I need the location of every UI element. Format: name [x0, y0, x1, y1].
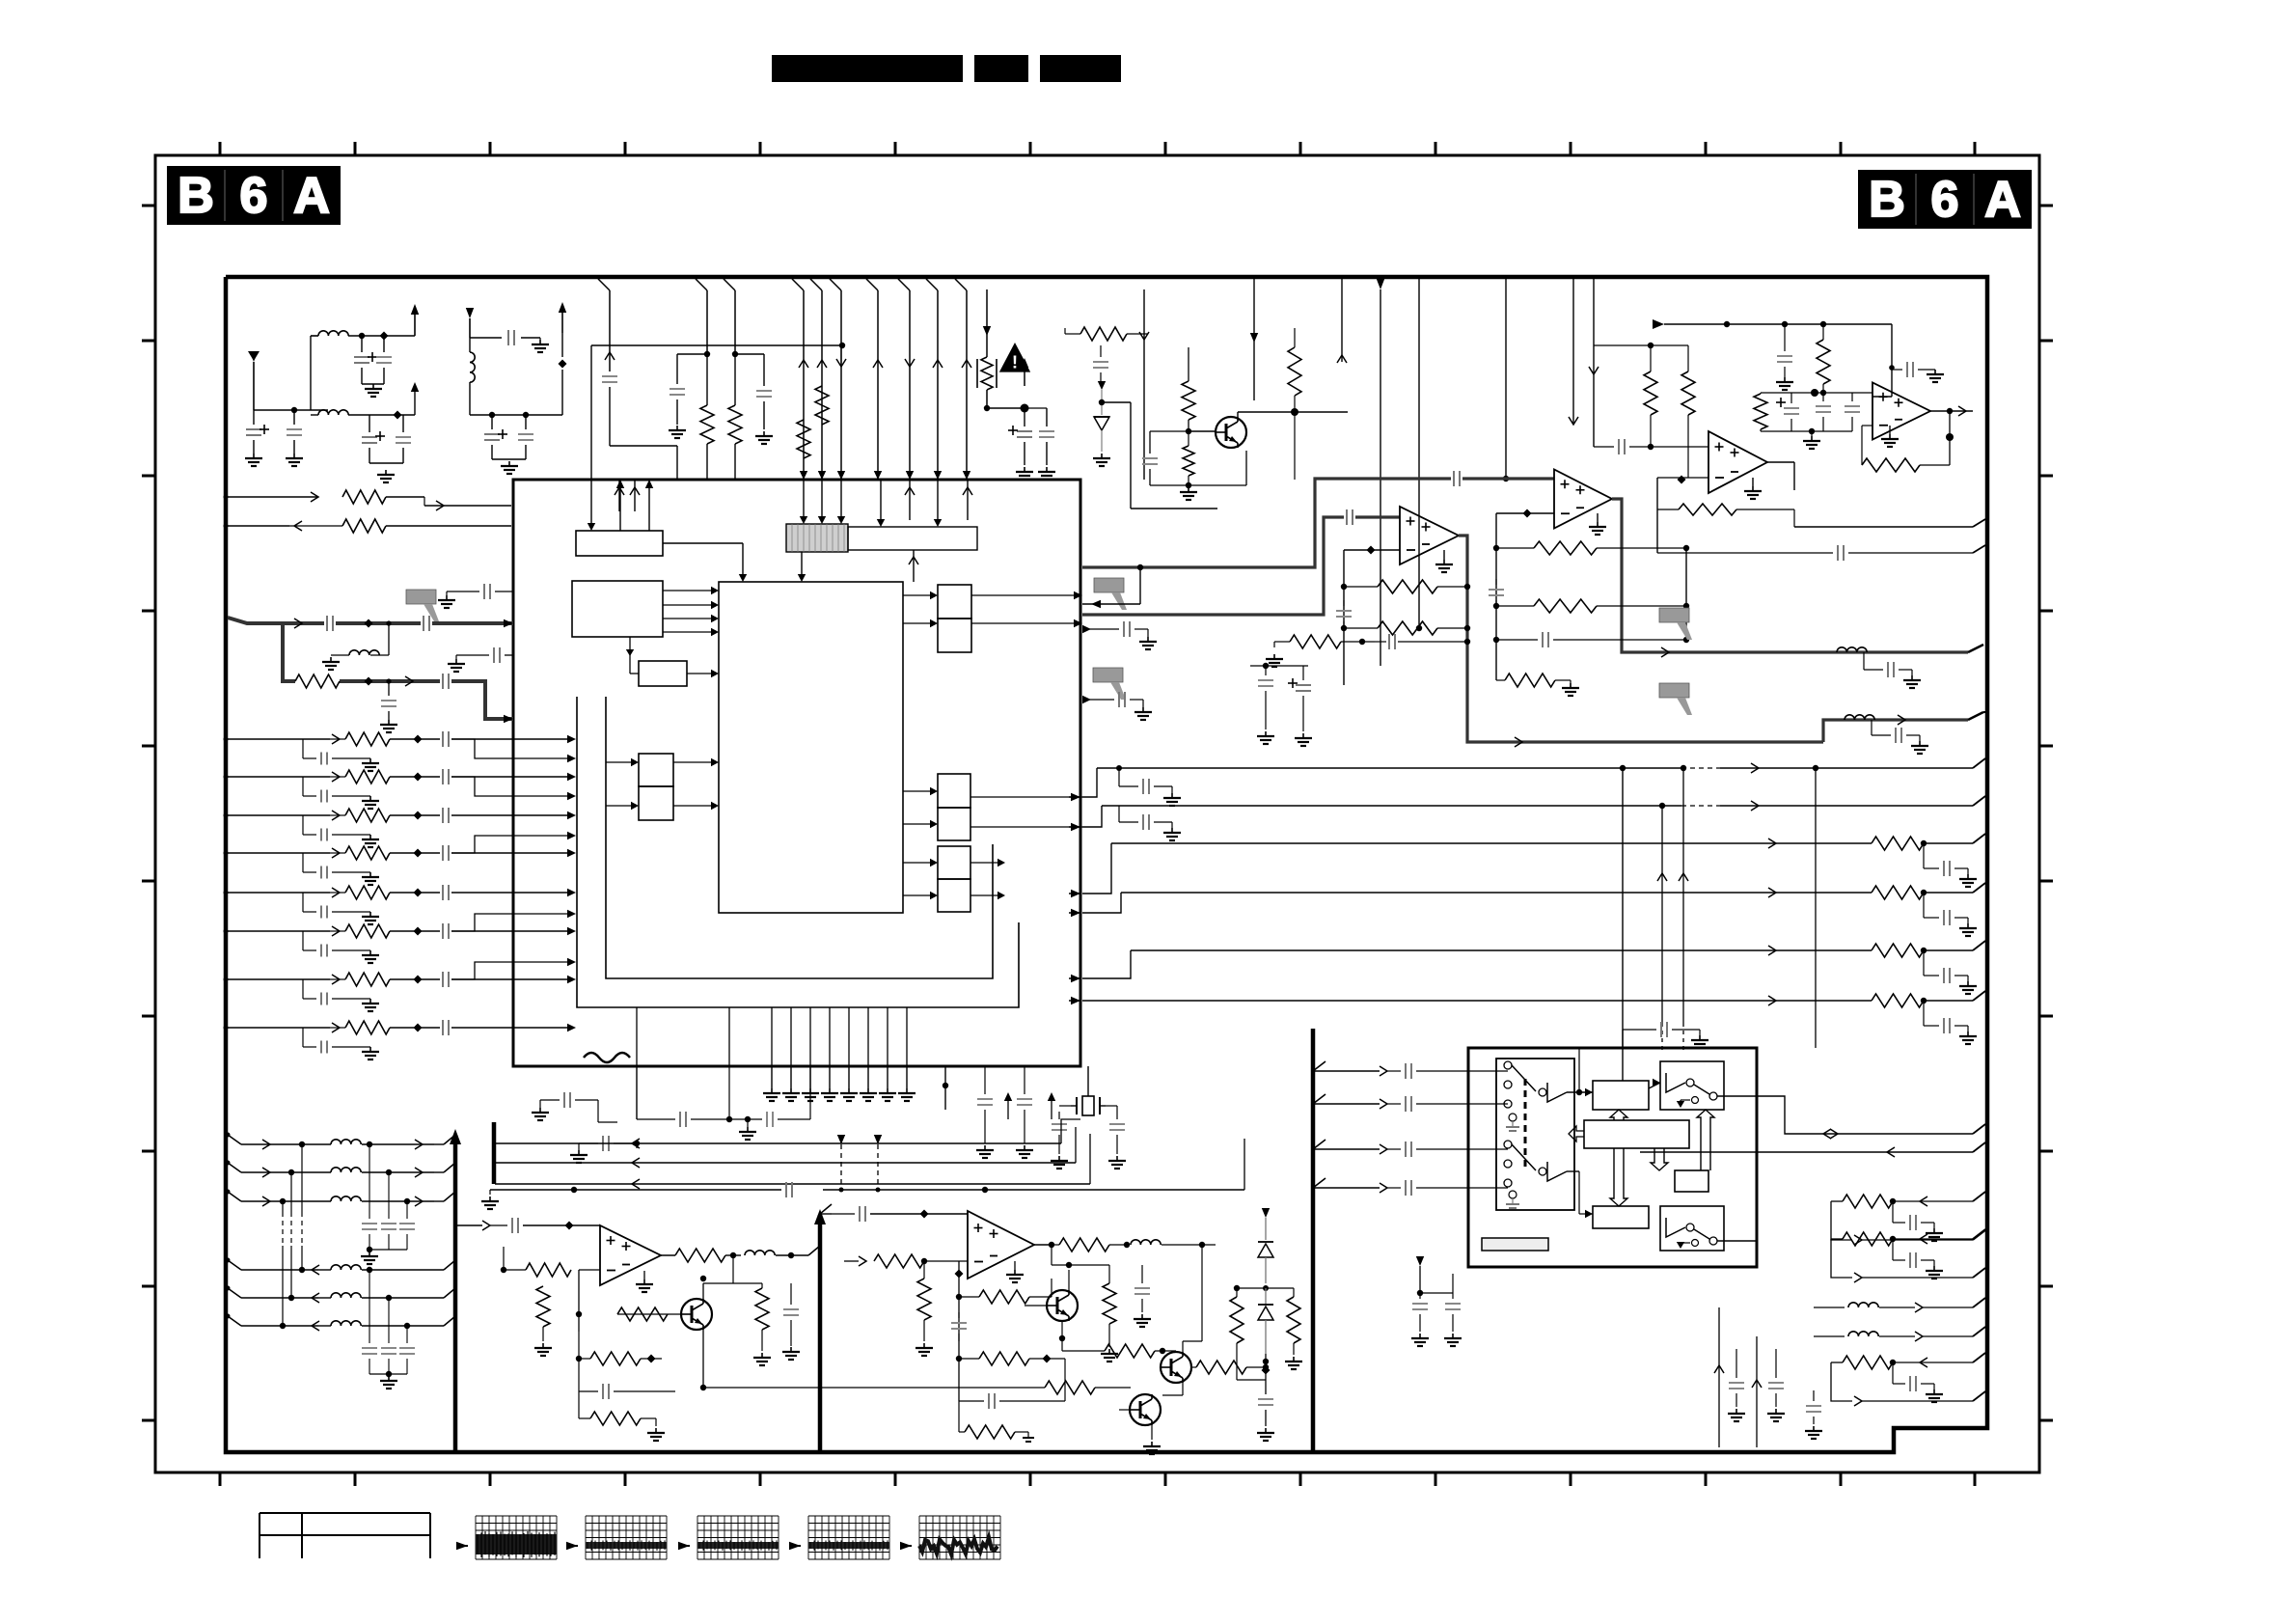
transistor Q4 — [1161, 1352, 1191, 1383]
inductor L2 — [318, 410, 348, 415]
node — [394, 411, 402, 420]
return line 2 — [495, 1162, 1076, 1164]
switch arrow — [1680, 1100, 1681, 1106]
IC in arrow — [1082, 603, 1140, 605]
cap to ground stub — [1863, 652, 1865, 670]
op-amp U7 — [968, 1211, 1034, 1279]
bus elbows — [1082, 768, 1097, 797]
dashed supply 2 — [874, 1135, 882, 1144]
res row 1412 — [1831, 1362, 1843, 1363]
inductor L6 — [745, 1251, 775, 1255]
oscillogram thumbnail 5 — [918, 1516, 920, 1559]
resistor R12 — [1496, 547, 1534, 549]
IC U1 block: hatched register — [786, 524, 848, 552]
thick branch (highlight) — [283, 623, 295, 681]
resistor R3 — [797, 420, 810, 458]
gray ground 1 — [1509, 1114, 1517, 1121]
node — [1234, 1285, 1240, 1291]
lower res rows — [578, 1332, 580, 1359]
IC U1 brace mark — [584, 1053, 630, 1062]
diode D1 — [1098, 381, 1106, 390]
IC internal: bottom verticals — [771, 1007, 773, 1066]
bus line y=985 — [1131, 949, 1640, 951]
IC internal: sub-block wires — [629, 637, 631, 674]
capacitor C42 gnd — [1141, 1265, 1143, 1283]
cap top wire — [490, 1189, 781, 1191]
switch block inputs — [1313, 1070, 1380, 1072]
bus line y=925 — [1121, 892, 1640, 894]
dashed supply 1 — [837, 1135, 845, 1144]
thick signal path A — [1082, 479, 1451, 567]
cap trio 1 — [369, 1144, 370, 1219]
wire topmid-to-box — [1649, 1083, 1660, 1088]
wire — [840, 345, 842, 367]
wire: top link bus — [591, 344, 842, 346]
bus stub — [492, 1122, 497, 1184]
cap row — [578, 1359, 580, 1391]
border tick marks — [219, 142, 222, 155]
supply arrow up — [1051, 1100, 1052, 1119]
ground — [362, 383, 384, 385]
transistor Q5 — [1130, 1394, 1161, 1425]
crystal X1 — [1087, 1066, 1089, 1096]
cap+gnd above — [1622, 1030, 1624, 1048]
safety resistor R5 — [986, 289, 988, 357]
node — [1263, 1359, 1269, 1364]
capacitor C7 — [507, 330, 509, 345]
wire buffer1-to-topmid — [1567, 1091, 1593, 1093]
resistor R19 — [295, 674, 340, 688]
capacitor C3+ — [253, 410, 255, 425]
gray ground 2 — [1509, 1191, 1517, 1198]
IC bottom ground stubs — [771, 1066, 773, 1088]
bus line y=835 — [1102, 805, 1640, 807]
input row 8 (resistor R27, caps) — [226, 1027, 330, 1029]
up/down arrows on drops — [799, 360, 808, 368]
resistor R36 — [959, 1296, 979, 1298]
ground — [747, 1119, 749, 1127]
wire buffer2-out — [1567, 1170, 1579, 1172]
node — [365, 619, 373, 628]
IC internal: register to core — [801, 552, 803, 575]
capacitor C45 gnd — [1452, 1293, 1454, 1299]
contact circles — [1504, 1061, 1512, 1069]
block: bottom mid — [1593, 1206, 1649, 1228]
U6 minus feed — [579, 1269, 600, 1271]
inductor L1 — [318, 331, 348, 336]
wire: Q1 collector — [1237, 412, 1239, 417]
vertical drop — [1572, 279, 1574, 425]
capacitor C30b — [1594, 446, 1614, 448]
supply arrow up — [561, 311, 563, 333]
lower-left row y=1215 — [228, 1163, 241, 1172]
block: top mid — [1593, 1081, 1649, 1110]
capacitor C28 — [1845, 405, 1860, 407]
svg-text:B: B — [1869, 172, 1905, 228]
cluster bottom wire — [1760, 429, 1762, 431]
wire branch — [451, 777, 569, 796]
IC up-arrow outputs — [619, 487, 621, 531]
IC U1 outline — [513, 480, 1080, 1066]
oscillogram thumbnail 4 — [807, 1516, 809, 1559]
ground — [1811, 431, 1813, 436]
resistor R10 — [1344, 627, 1378, 629]
coil L3 — [469, 338, 471, 352]
IC U1 internal bus (outer) — [577, 697, 1019, 1007]
thick input row 1 (highlight) — [228, 618, 324, 623]
IC U1 block: register extension — [848, 527, 977, 550]
bus line y=796 — [1097, 767, 1640, 769]
res gnd row — [578, 1391, 580, 1418]
ground — [1597, 513, 1599, 522]
open arrow down — [1651, 1148, 1668, 1170]
capacitor C41 — [959, 1400, 984, 1402]
supply arrow — [1262, 1208, 1270, 1218]
thick path from U3 out — [1612, 499, 1968, 652]
capacitor C14 — [1046, 408, 1048, 426]
capacitor C17 — [1346, 509, 1348, 525]
cap to ground — [1736, 1349, 1737, 1378]
capacitor C10 drop — [598, 279, 610, 290]
diode D3 — [1265, 1288, 1267, 1305]
op-amp U2 — [1400, 507, 1459, 564]
U7 output — [1034, 1244, 1052, 1246]
cap stub into IC y613 — [446, 595, 448, 600]
wire — [470, 337, 502, 339]
input wire — [820, 1213, 832, 1215]
capacitor C30 — [326, 616, 328, 631]
wire — [1059, 1105, 1071, 1107]
input row 1 (resistor R20, caps) — [226, 738, 330, 740]
wire — [1139, 567, 1141, 604]
resistor R32 — [675, 1249, 725, 1262]
edge connector — [1968, 712, 1983, 720]
buffer tri 3 — [1666, 1073, 1685, 1092]
ground — [1443, 550, 1445, 560]
wire — [1237, 1379, 1266, 1381]
svg-text:A: A — [293, 168, 330, 224]
supply arrow (group B) — [466, 308, 474, 318]
wire U4 out — [1767, 461, 1794, 463]
node — [1678, 476, 1686, 484]
supply arrow up — [1024, 367, 1025, 386]
Q2 collector — [702, 1283, 704, 1299]
svg-text:6: 6 — [1931, 172, 1959, 228]
capacitor C44 gnd — [1419, 1293, 1421, 1299]
capacitor C23 — [1496, 639, 1538, 641]
vertical drop — [1253, 279, 1255, 400]
capacitor C5+ — [369, 415, 370, 432]
bias resistor pair — [1594, 344, 1688, 346]
input row y515 — [226, 496, 318, 498]
svg-text:B: B — [178, 168, 214, 224]
lower-left row y=1374 — [228, 1316, 241, 1326]
return line 3 — [495, 1183, 1090, 1185]
wire: Q1 base — [1189, 430, 1216, 432]
cap mid — [790, 1283, 792, 1305]
wire — [1344, 549, 1400, 551]
pol cap C20 and C21 to ground — [1265, 666, 1267, 675]
vertical from bus — [1815, 768, 1817, 1048]
signal flag 1 — [1094, 578, 1124, 592]
switch sub-box — [1496, 1059, 1574, 1210]
lower-left row y=1186 — [228, 1135, 241, 1144]
wire — [470, 414, 562, 416]
IC U1 block: left pair A — [639, 754, 673, 786]
resistor R30 — [504, 1269, 526, 1271]
block: small right — [1675, 1170, 1708, 1192]
grid label B6A (top-right) — [1858, 170, 2032, 229]
cap to ground — [1813, 1390, 1815, 1401]
resistor R40 gnd — [1103, 1283, 1116, 1324]
capacitor C18 — [1343, 600, 1345, 606]
verticals to switch block — [1661, 806, 1663, 1023]
Q3 emitter — [1061, 1321, 1063, 1334]
transistor Q3 — [1047, 1290, 1078, 1321]
resistor R31 gnd — [536, 1286, 550, 1327]
IC U1 block: top-left control — [576, 531, 663, 556]
resistor R44 gnd — [1287, 1297, 1300, 1343]
section divider bus 1 — [453, 1135, 458, 1452]
op-amp U3 — [1554, 470, 1612, 529]
IC internal: core to out pairs — [903, 594, 931, 596]
IC internal: ctrl to core — [663, 542, 743, 544]
outer border frame — [155, 155, 2039, 1472]
node — [984, 405, 990, 411]
wire U5 out — [1930, 410, 1973, 412]
inductor L5 — [1837, 647, 1867, 652]
wire out right low — [1717, 1240, 1757, 1242]
resistor R6 — [1064, 328, 1066, 334]
IC U1 block: out pair low — [938, 846, 970, 879]
capacitor C34 — [984, 1066, 986, 1094]
black redaction bar 1 — [772, 55, 963, 82]
capacitor C35 — [1024, 1066, 1025, 1094]
capacitor C43 gnd — [1258, 1398, 1273, 1400]
wire — [1143, 289, 1145, 480]
op-amp U6 — [600, 1225, 661, 1285]
signal flag 2 — [1093, 668, 1123, 682]
IC U1 block: out pair mid — [938, 774, 970, 808]
ground — [1752, 478, 1754, 486]
capacitor C19 — [1388, 634, 1390, 649]
vertical feeds — [1718, 1307, 1720, 1447]
node — [224, 495, 229, 500]
capacitor C37 — [1116, 1106, 1118, 1119]
input row 4 (resistor R23, caps) — [226, 852, 330, 854]
open arrow up — [1697, 1110, 1714, 1170]
vertical from bus — [1622, 768, 1624, 1081]
Q2 base net — [617, 1313, 681, 1315]
vertical drop — [1418, 279, 1420, 628]
thick signal path B — [1082, 517, 1344, 615]
capacitor C22 — [1495, 579, 1497, 585]
cap to ground (left) — [579, 1142, 598, 1144]
Q3 collector — [1068, 1270, 1070, 1290]
resistor R35 gnd — [917, 1279, 931, 1320]
capacitor C25 gnd — [1892, 369, 1902, 371]
IC internal: drops into blocks — [590, 480, 592, 524]
wire to U5 plus — [1891, 324, 1893, 397]
input row y545 — [226, 525, 289, 527]
resistor R41 — [1105, 1344, 1155, 1358]
lower-left row y=1316 — [228, 1260, 241, 1270]
resistor R42 — [1196, 1361, 1246, 1374]
resistor R37 — [959, 1358, 979, 1360]
resistor R15 — [1817, 340, 1830, 384]
resistor R33 gnd — [755, 1288, 769, 1330]
out line — [1757, 1096, 1973, 1134]
capacitor C6 — [402, 415, 404, 432]
resistor R11 with ground — [1273, 654, 1275, 659]
section divider bus 3 — [1311, 1029, 1316, 1452]
wire out right — [1717, 1095, 1757, 1097]
supply arrow up — [1007, 1100, 1009, 1119]
inductor branch to ground — [388, 623, 390, 655]
switch block outline — [1468, 1048, 1757, 1267]
cap to ground stub — [1082, 628, 1119, 630]
capacitor C36 — [1058, 1112, 1060, 1119]
wire branch — [451, 836, 569, 853]
block: wide mid — [1584, 1120, 1689, 1148]
node — [1523, 509, 1532, 518]
supply arrow up — [414, 391, 416, 415]
pin arrows into IC top — [800, 471, 807, 480]
transistor Q2 — [681, 1299, 712, 1330]
bus line y=1037 — [1082, 1000, 1640, 1002]
thick path from U2 out — [1459, 536, 1823, 742]
resistor R18 — [1679, 504, 1736, 515]
wire branch — [451, 914, 569, 931]
oscillogram thumbnail 1 — [475, 1516, 477, 1559]
IC U1 block: out pair top — [938, 585, 971, 619]
pol cap C26 — [1784, 407, 1799, 409]
Q4 wires — [1182, 1341, 1184, 1352]
Q2 emitter long wire — [702, 1330, 704, 1388]
capacitor C29 — [1657, 552, 1833, 554]
ground — [385, 470, 387, 475]
input row 7 (resistor R26, caps) — [226, 978, 330, 980]
node — [1367, 546, 1376, 555]
ground — [492, 458, 526, 460]
supply drop wires from top frame — [696, 279, 707, 290]
black redaction bar 2 — [974, 55, 1028, 82]
revision table — [260, 1512, 430, 1514]
input wire — [455, 1224, 482, 1226]
cap stub into IC y679 — [455, 659, 457, 664]
ground — [539, 340, 541, 344]
input row 3 (resistor R22, caps) — [226, 814, 330, 816]
capacitor C8+ — [491, 415, 493, 429]
edge connector — [1968, 645, 1983, 652]
diode D2 — [1258, 1242, 1273, 1257]
IC internal: out pair exits — [971, 594, 1076, 596]
oscillogram thumbnail 2 — [585, 1516, 587, 1559]
section divider bus 2 — [818, 1215, 823, 1452]
signal flag 4 — [1659, 683, 1689, 698]
input row 5 (resistor R24, caps) — [226, 892, 330, 894]
Q1 base RC box — [1150, 430, 1189, 432]
black redaction bar 3 — [1040, 55, 1121, 82]
capacitor C27 — [1816, 405, 1831, 407]
resistor R38 gnd — [965, 1425, 1015, 1439]
capacitor C2 — [383, 336, 385, 352]
IC pin arrow — [504, 619, 513, 627]
Q3 base — [1025, 1305, 1047, 1307]
column bundle — [301, 1144, 303, 1212]
flag on row — [406, 590, 436, 604]
supply arrow — [1416, 1256, 1424, 1266]
supply arrow down mid — [1377, 279, 1384, 289]
switch arrow — [1680, 1243, 1681, 1247]
IC U1 block: small sub-block — [639, 661, 687, 686]
U4 minus wire — [1657, 477, 1708, 479]
capacitor C1+ — [361, 336, 363, 352]
inductor L7 — [1131, 1240, 1161, 1245]
node cluster — [943, 1083, 948, 1088]
signal flag 3 — [1659, 608, 1689, 622]
ground — [1889, 426, 1891, 434]
block: top right box — [1660, 1061, 1724, 1110]
ground — [643, 1271, 645, 1279]
capacitor C12 to ground — [763, 354, 765, 386]
resistor R14 to ground — [1496, 679, 1505, 681]
Q5 wires — [1119, 1409, 1130, 1411]
resistor R13 — [1496, 605, 1534, 607]
wire branch — [451, 962, 569, 979]
vertical drop — [1341, 279, 1343, 362]
capacitor C32 — [442, 674, 444, 689]
capacitor C11 to ground — [676, 354, 678, 384]
bus line y=874 — [1111, 842, 1640, 844]
input row 6 (resistor R25, caps) — [226, 930, 330, 932]
IC U1 block: central core — [719, 582, 903, 913]
resistor R8 — [1288, 347, 1301, 396]
IC U1 internal bus (inner) — [606, 697, 993, 978]
block: label strip — [1482, 1238, 1548, 1251]
inductor L4 — [1845, 715, 1874, 720]
input row 2 (resistor R21, caps) — [226, 776, 330, 778]
cluster top wire — [1761, 392, 1852, 394]
wire — [310, 336, 312, 410]
block: bottom right box — [1660, 1206, 1724, 1251]
resistor R4 — [815, 386, 829, 425]
capacitor C16 — [1453, 471, 1455, 486]
cap+gnd on stub — [540, 1099, 560, 1101]
op-amp U4 — [1708, 431, 1767, 493]
wire — [254, 409, 328, 411]
buffer tri 4 — [1666, 1218, 1685, 1237]
capacitor C24 gnd — [1784, 324, 1786, 351]
cap trio 2 — [369, 1270, 370, 1343]
res row 1245 — [1831, 1200, 1843, 1202]
brace + cap row — [636, 1066, 638, 1119]
schematic boundary (thick) — [226, 277, 1987, 1452]
capacitor C40 — [958, 1312, 960, 1318]
ground — [1014, 1261, 1016, 1270]
cap-gnd stubs near bus — [1118, 768, 1120, 786]
resistor R34 — [1045, 1381, 1095, 1394]
op-amp U5 — [1872, 383, 1930, 440]
U6 output — [661, 1254, 675, 1256]
U5 feedback — [1949, 411, 1951, 437]
supply arrow feed — [1653, 319, 1664, 329]
IC output arrows — [1071, 793, 1080, 801]
open arrow up — [1610, 1110, 1627, 1120]
capacitor C13+ — [1024, 408, 1025, 426]
wire — [1685, 548, 1687, 640]
grid label B6A (top-left) — [167, 166, 341, 225]
